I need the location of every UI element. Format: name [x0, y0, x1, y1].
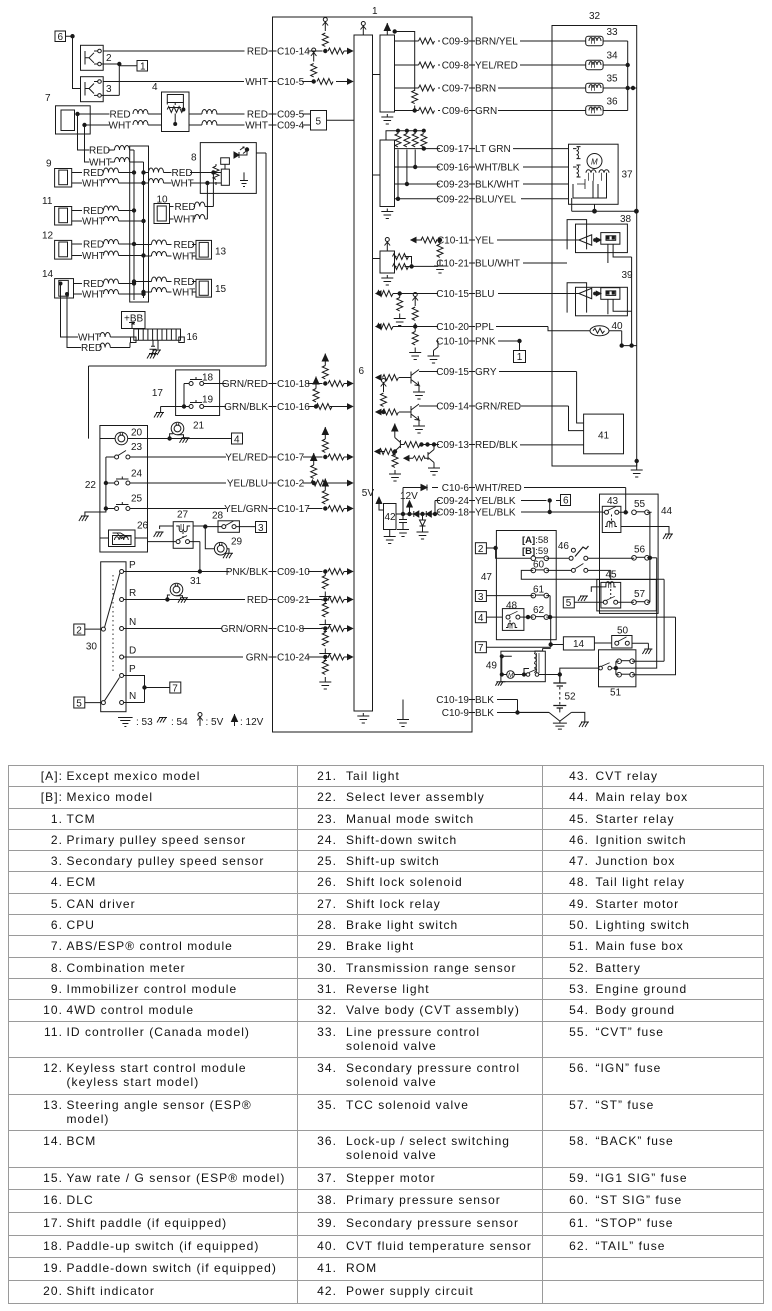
wire C10-20 PPL arrow resistor 5V divider	[376, 293, 567, 360]
WHT/RED feed to relay 43	[624, 488, 627, 515]
svg-text:PPL: PPL	[475, 322, 494, 333]
svg-text:C10-24: C10-24	[277, 653, 310, 664]
power circuit 42 cluster	[362, 488, 437, 544]
contact N	[120, 617, 137, 631]
svg-text:C09-24: C09-24	[436, 496, 469, 507]
svg-text:16: 16	[187, 332, 199, 343]
wire RED 15	[132, 277, 196, 288]
contact N low	[120, 691, 137, 705]
svg-text:PNK: PNK	[475, 337, 496, 348]
svg-text:C10-16: C10-16	[277, 402, 310, 413]
svg-text:15: 15	[215, 284, 227, 295]
tail light 21	[170, 421, 205, 443]
wire C10-9 BLK	[442, 708, 549, 719]
wire RED 4-to-TCM twisted	[189, 110, 217, 115]
range sensor arm 1	[101, 573, 119, 671]
svg-text:4: 4	[152, 82, 158, 93]
ID controller 11	[42, 196, 80, 225]
svg-text:GRY: GRY	[475, 367, 497, 378]
ABS/ESP control module 7	[45, 93, 90, 134]
svg-text:RED: RED	[247, 595, 268, 606]
TCM internal ground cluster at bottom	[397, 700, 409, 727]
svg-text:4: 4	[478, 613, 484, 624]
svg-text:52: 52	[565, 692, 577, 703]
wire RED 13	[134, 240, 196, 251]
svg-text:PNK/BLK: PNK/BLK	[226, 567, 269, 578]
ground under driver C	[381, 275, 393, 285]
wire WHT from BCM down to DLC	[61, 284, 131, 344]
svg-text:C09-17: C09-17	[436, 144, 469, 155]
svg-text:C09-5: C09-5	[277, 110, 305, 121]
svg-text:C09-14: C09-14	[436, 402, 469, 413]
brake light 29	[205, 527, 242, 559]
svg-text:C09-9: C09-9	[442, 37, 470, 48]
wire indicator to ref 4	[148, 437, 232, 440]
svg-text:WHT: WHT	[109, 121, 132, 132]
svg-text:11: 11	[42, 196, 53, 207]
svg-text:49: 49	[486, 661, 498, 672]
svg-text:24: 24	[131, 469, 143, 480]
wire RED from BCM down to DLC	[67, 294, 130, 354]
driver block B	[380, 140, 395, 207]
CVT relay 43	[602, 496, 673, 539]
svg-text:38: 38	[620, 214, 632, 225]
ref box 7 feed	[475, 617, 563, 654]
wire C10-10 PNK to ground elbow and ref box 1	[428, 337, 526, 364]
svg-text:YEL: YEL	[475, 236, 494, 247]
svg-text:YEL/RED: YEL/RED	[225, 453, 268, 464]
svg-text:N: N	[129, 617, 136, 628]
ground under CPU strip	[357, 713, 369, 723]
wires 8 to 10 vertical pair	[207, 173, 213, 220]
svg-text:BLU: BLU	[475, 289, 494, 300]
svg-text:RED: RED	[83, 240, 104, 251]
svg-text:5V: 5V	[362, 488, 375, 499]
select lever assembly box 22	[85, 426, 148, 553]
wire WHT 7-to-4	[90, 121, 161, 132]
ground under driver A	[381, 114, 393, 124]
stub CPU to driver C	[373, 258, 381, 260]
wire PNK/BLK C09-10 with pulldown	[124, 567, 353, 604]
svg-text:27: 27	[177, 510, 189, 521]
svg-text:C10-15: C10-15	[436, 289, 469, 300]
svg-text:YEL/RED: YEL/RED	[475, 61, 518, 72]
svg-text:C09-21: C09-21	[277, 595, 310, 606]
svg-text:M: M	[591, 158, 598, 167]
svg-text:GRN: GRN	[475, 106, 497, 117]
svg-text:C09-23: C09-23	[436, 180, 469, 191]
wire GRN/RED C10-18 12V pullup	[204, 354, 353, 391]
svg-text:7: 7	[45, 93, 51, 104]
svg-text:31: 31	[190, 576, 202, 587]
CPU strip 6	[354, 35, 373, 711]
svg-text:3: 3	[106, 84, 112, 95]
svg-text:3: 3	[478, 592, 484, 603]
svg-text:C10-17: C10-17	[277, 504, 310, 515]
driver C resistor loops to C10-11/C10-21	[395, 257, 412, 267]
svg-text:37: 37	[622, 170, 634, 181]
svg-text:GRN: GRN	[246, 653, 268, 664]
svg-text:C10-10: C10-10	[436, 337, 469, 348]
legend: 12V symbol	[232, 714, 264, 728]
svg-text:13: 13	[215, 247, 227, 258]
svg-text:RED: RED	[174, 277, 195, 288]
svg-text:BLU/YEL: BLU/YEL	[475, 194, 517, 205]
svg-text:45: 45	[606, 570, 618, 581]
wire RED C09-5 to CAN driver	[217, 110, 311, 121]
svg-text:P: P	[129, 664, 136, 675]
svg-text:WHT: WHT	[82, 251, 105, 262]
svg-text:D: D	[129, 646, 136, 657]
svg-text:BRN/YEL: BRN/YEL	[475, 37, 518, 48]
5V symbol on CPU top	[361, 22, 367, 36]
engine ground 53	[549, 712, 585, 729]
legend table	[8, 765, 764, 1304]
svg-text:62: 62	[533, 605, 545, 616]
wire WHT 15	[142, 288, 196, 299]
wire C09-14 GRN/RED transistor Q2 with 5V	[376, 379, 569, 434]
svg-text:WHT: WHT	[173, 252, 196, 263]
svg-text:6: 6	[563, 496, 569, 507]
svg-text:: 5V: : 5V	[206, 717, 224, 728]
svg-text:RED: RED	[83, 279, 104, 290]
BACK fuse 58/59	[531, 556, 569, 561]
svg-text:21: 21	[193, 421, 205, 432]
wire C09-17 LT GRN	[395, 144, 569, 155]
BCM box 14	[563, 637, 611, 650]
svg-text:26: 26	[137, 521, 149, 532]
svg-text:WHT: WHT	[82, 179, 105, 190]
svg-text:C09-13: C09-13	[436, 440, 469, 451]
ref box 2 feed	[475, 543, 531, 559]
svg-text:C09-10: C09-10	[277, 567, 310, 578]
wire WHT C09-4 to CAN driver	[217, 121, 311, 132]
DLC 16 connector comb	[131, 329, 199, 359]
svg-text:C10-14: C10-14	[277, 47, 310, 58]
wire C09-13 RED/BLK darlington Q3	[375, 424, 518, 482]
ST SIG fuse 60	[521, 560, 664, 580]
svg-text:RED: RED	[247, 110, 268, 121]
svg-text:RED/BLK: RED/BLK	[475, 440, 518, 451]
svg-text:35: 35	[607, 74, 619, 85]
wire RED from 7 down to CAN trunk	[78, 134, 134, 157]
svg-text:2: 2	[76, 625, 82, 636]
wire C09-23 BLK/WHT	[395, 180, 569, 191]
wire C10-21 BLU/WHT	[412, 259, 567, 270]
CAN bus trunk shield	[130, 146, 149, 302]
svg-text:56: 56	[634, 545, 646, 556]
ref box 2	[74, 624, 102, 636]
wire GRN/ORN C10-8 with pulldown	[124, 624, 353, 661]
svg-text:9: 9	[46, 159, 52, 170]
svg-text:50: 50	[617, 626, 629, 637]
svg-text:YEL/BLK: YEL/BLK	[475, 508, 516, 519]
wire C09-6 GRN	[395, 106, 586, 117]
legend: 5V symbol	[197, 713, 223, 729]
upper fuse feed vertical	[663, 579, 665, 661]
brake light switch 28	[204, 511, 256, 533]
svg-text:17: 17	[152, 388, 164, 399]
wire WHT 14	[74, 290, 146, 301]
starter motor assembly 49	[486, 648, 560, 685]
primary pulley speed sensor 2	[81, 45, 122, 95]
wire WHT 9	[72, 179, 146, 190]
svg-text:BLU/WHT: BLU/WHT	[475, 259, 520, 270]
wire RED 8	[142, 168, 222, 179]
svg-text:: 12V: : 12V	[240, 717, 264, 728]
contact P low	[120, 664, 136, 678]
contact R	[120, 588, 137, 602]
lock-up select switching solenoid valve 36	[586, 97, 628, 116]
svg-text:BLK/WHT: BLK/WHT	[475, 180, 519, 191]
svg-text:57: 57	[634, 589, 646, 600]
svg-text:C10-8: C10-8	[277, 624, 305, 635]
driver block C	[380, 251, 395, 273]
svg-text:12: 12	[42, 231, 54, 242]
svg-text:C10-9: C10-9	[442, 708, 470, 719]
lighting switch 50	[612, 626, 653, 655]
svg-text:5: 5	[566, 598, 572, 609]
wire GRN C10-24 with pulldown	[124, 653, 353, 690]
svg-text:C10-5: C10-5	[277, 77, 305, 88]
wire C09-22 BLU/YEL	[395, 194, 569, 205]
svg-text:C10-20: C10-20	[436, 322, 469, 333]
svg-text:C10-6: C10-6	[442, 483, 470, 494]
svg-text:4: 4	[234, 434, 240, 445]
svg-text:41: 41	[598, 431, 610, 442]
svg-text:7: 7	[478, 643, 484, 654]
solenoid return rail	[627, 41, 629, 111]
svg-text:GRN/RED: GRN/RED	[222, 379, 268, 390]
svg-text:: 54: : 54	[171, 717, 188, 728]
wire WHT 11	[72, 217, 146, 228]
svg-text:25: 25	[131, 494, 143, 505]
svg-text:7: 7	[172, 683, 178, 694]
wire C09-16 WHT/BLK	[395, 163, 569, 174]
svg-text:C09-16: C09-16	[436, 163, 469, 174]
transmission range sensor box 30	[86, 562, 126, 712]
svg-text:WHT: WHT	[174, 215, 197, 226]
ref box 4	[232, 433, 243, 445]
svg-text:RED: RED	[174, 240, 195, 251]
svg-text:5: 5	[316, 117, 322, 128]
svg-text:14: 14	[42, 269, 54, 280]
svg-text:M: M	[508, 672, 514, 679]
svg-text:WHT/BLK: WHT/BLK	[475, 163, 520, 174]
wire YEL/BLU C10-2 12V pullup	[130, 453, 353, 490]
svg-text:C10-11: C10-11	[437, 236, 469, 247]
svg-text:YEL/GRN: YEL/GRN	[224, 504, 268, 515]
svg-text:BRN: BRN	[475, 84, 496, 95]
svg-text:C10-19: C10-19	[436, 695, 469, 706]
secondary pulley speed sensor 3	[81, 77, 120, 102]
stepper motor 37	[569, 144, 639, 213]
svg-text:YEL/BLK: YEL/BLK	[475, 496, 516, 507]
body ground 54	[579, 722, 589, 727]
svg-text:WHT: WHT	[245, 77, 268, 88]
svg-text:C10-7: C10-7	[277, 453, 305, 464]
battery 52	[553, 668, 599, 712]
svg-text:RED: RED	[89, 146, 110, 157]
wire C09-24 YEL/BLK ref box 6	[435, 495, 571, 515]
ref box 4 and tail light relay 48	[475, 601, 533, 631]
svg-text:: 53: : 53	[136, 717, 153, 728]
svg-text:C09-18: C09-18	[436, 508, 469, 519]
svg-text:6: 6	[359, 366, 365, 377]
svg-text:RED: RED	[175, 202, 196, 213]
svg-text:[A]:58: [A]:58	[522, 535, 548, 546]
wire RED 14	[74, 279, 136, 290]
wire GRN/BLK C10-16 12V pullup	[204, 377, 353, 414]
ignition switch 46	[558, 541, 634, 560]
svg-text:R: R	[129, 588, 136, 599]
svg-text:LT GRN: LT GRN	[475, 144, 511, 155]
svg-text:1: 1	[517, 352, 523, 363]
main fuse box 51	[599, 650, 665, 699]
contact P	[120, 560, 136, 574]
svg-text:GRN/RED: GRN/RED	[475, 402, 521, 413]
wire RED C09-21 with pulldown	[124, 595, 353, 632]
DLC 16 +BB box	[122, 312, 146, 329]
svg-text:28: 28	[212, 511, 224, 522]
svg-text:32: 32	[589, 11, 601, 22]
contact D	[120, 646, 137, 660]
svg-text:BLK: BLK	[475, 695, 494, 706]
ground under driver B	[381, 209, 393, 219]
relay 27 to PNK/BLK vertical	[198, 542, 201, 574]
svg-text:BLK: BLK	[475, 708, 494, 719]
svg-text:23: 23	[131, 442, 143, 453]
IGN fuse 56	[616, 545, 657, 669]
wire C09-18 YEL/BLK	[436, 508, 602, 519]
svg-text:C10-18: C10-18	[277, 379, 310, 390]
shift lock relay 27	[148, 510, 206, 549]
svg-text:RED: RED	[247, 47, 268, 58]
ref box 1	[119, 61, 147, 73]
svg-text:18: 18	[202, 373, 214, 384]
svg-text:RED: RED	[83, 206, 104, 217]
svg-text:RED: RED	[172, 168, 193, 179]
valve body box 32	[552, 11, 637, 466]
svg-text:P: P	[129, 560, 136, 571]
legend: body ground 54	[157, 717, 188, 728]
CAN driver box 5	[311, 111, 355, 131]
paddle-down switch 19	[184, 395, 214, 409]
svg-text:C09-22: C09-22	[436, 194, 469, 205]
svg-text:34: 34	[607, 51, 619, 62]
manual mode switch 23	[106, 442, 143, 459]
ref box 7	[170, 682, 181, 694]
shift indicator 20	[100, 428, 148, 445]
svg-text:[B]:59: [B]:59	[522, 546, 548, 557]
select lever ground rail	[79, 457, 108, 521]
ref box 3	[256, 522, 267, 534]
ref box 6	[55, 31, 81, 89]
wire RED C10-14 with 5V pullup	[104, 18, 353, 58]
svg-text:8: 8	[191, 153, 197, 164]
wire WHT C10-5 with 5V pullup	[104, 48, 353, 88]
shift lock solenoid 26	[100, 521, 149, 547]
wire C10-15 BLU arrow resistor pulldown	[376, 289, 567, 326]
svg-text:44: 44	[661, 506, 673, 517]
legend: engine ground 53	[118, 717, 153, 728]
wire RED 9	[72, 168, 136, 179]
wire C10-11 YEL with arrow and pulldown	[411, 236, 567, 274]
svg-text:43: 43	[607, 496, 619, 507]
BCM 14	[42, 269, 80, 298]
12V bus over driver B	[386, 131, 424, 140]
line pressure control solenoid valve 33	[586, 27, 628, 46]
wire WHT 12	[72, 251, 146, 262]
ECM 4	[152, 82, 189, 132]
svg-text:30: 30	[86, 642, 98, 653]
driver block A	[380, 35, 395, 112]
main relay box 44	[600, 494, 673, 613]
ref box 5	[74, 697, 102, 709]
wire YEL/RED C10-7 12V pullup	[130, 427, 353, 464]
wire combination meter to shift indicator feed	[89, 153, 267, 439]
shift-down switch 24	[106, 469, 143, 486]
svg-text:GRN/ORN: GRN/ORN	[221, 624, 268, 635]
valve body ground	[631, 459, 643, 477]
steering angle sensor 13	[192, 240, 226, 259]
svg-text:WHT: WHT	[171, 179, 194, 190]
svg-text:WHT: WHT	[245, 121, 268, 132]
svg-text:33: 33	[607, 27, 619, 38]
svg-text:19: 19	[202, 395, 214, 406]
4WD control module 10	[154, 195, 170, 224]
svg-text:N: N	[129, 691, 136, 702]
svg-text:20: 20	[131, 428, 143, 439]
secondary pressure sensor 39	[567, 270, 633, 316]
svg-text:6: 6	[58, 32, 64, 43]
svg-text:22: 22	[85, 480, 97, 491]
svg-text:WHT: WHT	[173, 288, 196, 299]
wire C09-9 BRN/YEL	[395, 37, 586, 48]
paddle-up switch 18	[184, 373, 214, 386]
ST fuse 57	[632, 589, 650, 605]
shift paddle box 17	[152, 370, 220, 416]
bus drops to stepper wires	[398, 149, 424, 199]
svg-text:WHT/RED: WHT/RED	[475, 483, 522, 494]
wire WHT from 7 down to CAN trunk	[85, 134, 144, 168]
svg-text:C09-15: C09-15	[436, 367, 469, 378]
svg-text:1: 1	[140, 62, 146, 73]
svg-text:RED: RED	[81, 343, 102, 354]
5V symbol on driver C	[385, 238, 391, 252]
svg-text:2: 2	[478, 544, 484, 555]
wire C09-8 YEL/RED	[395, 61, 586, 72]
wire WHT 4-to-TCM twisted	[189, 121, 217, 126]
svg-text:C09-6: C09-6	[442, 106, 470, 117]
12V symbol on driver A	[384, 23, 390, 35]
svg-text:RED: RED	[110, 110, 131, 121]
svg-text:1: 1	[372, 6, 378, 17]
shift-up switch 25	[106, 494, 143, 511]
[A][B] fuse label	[522, 535, 548, 557]
wire RED 12	[72, 240, 136, 251]
wire C09-15 GRY transistor Q1	[376, 367, 577, 399]
wire C10-6 WHT/RED with diode	[403, 483, 626, 514]
svg-text:36: 36	[607, 97, 619, 108]
CVT fuse 55	[632, 499, 652, 558]
yaw rate G sensor 15	[196, 279, 227, 297]
secondary pressure control solenoid valve 34	[586, 51, 630, 70]
svg-text:29: 29	[231, 537, 243, 548]
wire P lower and N lower to ref 7	[124, 676, 170, 703]
junction box 47	[481, 531, 556, 640]
wire: driver A top feed to C09-6 rail	[395, 32, 415, 111]
